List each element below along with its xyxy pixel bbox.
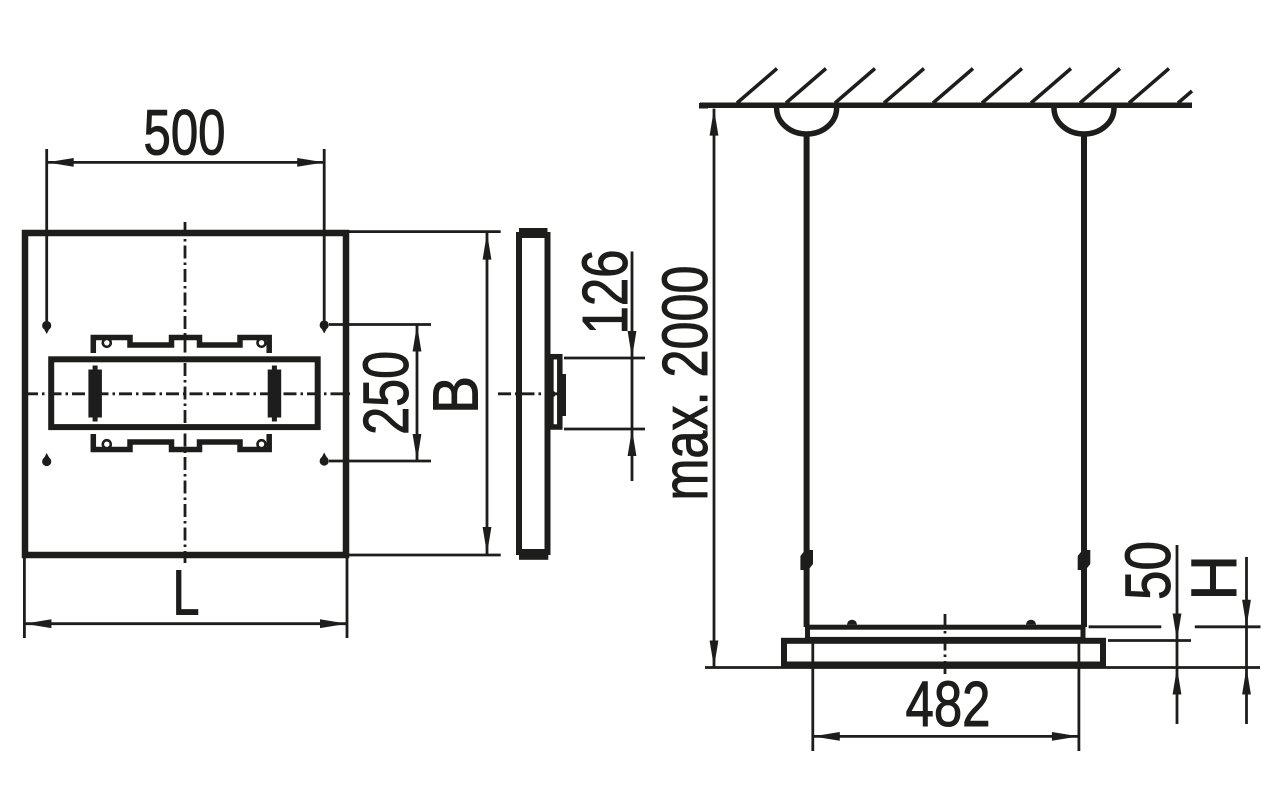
dim 482 arrow left (813, 732, 840, 741)
gear box (51, 359, 318, 427)
svg-text:max. 2000: max. 2000 (649, 266, 721, 501)
dim H arrow top (1242, 600, 1251, 627)
ceiling line end nub (699, 103, 708, 109)
dim 500 arrow right (297, 158, 324, 167)
horizontal centerline (25, 392, 350, 395)
cable right (1081, 133, 1087, 627)
dim 500 extension line right (323, 149, 326, 321)
frame (784, 641, 1103, 665)
suspension marker top-right (320, 320, 329, 333)
side top cap (519, 228, 548, 234)
screw hole bottom-right (258, 440, 266, 448)
svg-text:50: 50 (1112, 541, 1184, 600)
side centerline (498, 392, 568, 395)
dim max2000 arrow top (710, 109, 719, 136)
dim 482 dimension line (813, 735, 1079, 738)
cable gripper right (1078, 550, 1091, 570)
dim 250 dimension line (416, 325, 419, 462)
dim 50 extension line (strip top, left segment) (1089, 625, 1162, 628)
front centerline (944, 614, 947, 678)
dim 250 arrow bottom (413, 434, 422, 461)
lamp bar right (268, 366, 282, 422)
dim L dimension line (24, 622, 347, 625)
dim 126 extension line top (564, 357, 645, 360)
suspension marker bottom-right (320, 453, 329, 466)
dim 50 arrow bottom (1173, 668, 1182, 695)
dim 126 arrow top (628, 331, 637, 358)
side bracket tab (560, 374, 567, 416)
dim 126 arrow bottom (628, 429, 637, 456)
side bottom cap (519, 554, 548, 560)
screw hole top-left (103, 339, 111, 347)
strip bump left (847, 620, 857, 625)
dim H arrow bottom (1242, 668, 1251, 695)
dim 250 extension line top (329, 323, 431, 326)
svg-text:500: 500 (144, 96, 226, 168)
dim max2000 dimension line (713, 109, 716, 668)
ceiling line (700, 103, 1192, 109)
dim B extension line bottom (349, 554, 501, 557)
dim 482 extension line right (1078, 642, 1081, 751)
cable gripper left (800, 550, 813, 570)
dim H extension line (strip top, right segment) (1195, 625, 1261, 628)
dim max2000 arrow bottom (710, 641, 719, 668)
svg-text:250: 250 (350, 351, 422, 435)
ceiling hatching (737, 69, 1192, 104)
dim 500 extension line left (45, 149, 48, 321)
dim 50 arrow top (1173, 614, 1182, 641)
dim 482 arrow right (1052, 732, 1079, 741)
ceiling mount dome left (777, 108, 837, 134)
side body (519, 235, 548, 552)
lamp bar left (88, 366, 102, 422)
svg-text:126: 126 (569, 250, 641, 335)
dim 126 extension line bottom (564, 428, 645, 431)
dim L extension line left (23, 558, 26, 638)
suspension marker bottom-left (42, 453, 51, 466)
dim 500 arrow left (47, 158, 74, 167)
dim B arrow top (483, 233, 492, 260)
dim B dimension line (486, 232, 489, 555)
svg-text:H: H (1178, 555, 1250, 601)
dim B arrow bottom (483, 527, 492, 554)
cable left (804, 133, 810, 627)
bottom extension line (panel underside) (705, 666, 1260, 669)
svg-text:482: 482 (906, 668, 991, 740)
top castellated strip (93, 338, 269, 354)
dim 126 dimension line (631, 252, 634, 482)
dim B extension line top (348, 230, 501, 233)
strip bump right (1026, 620, 1036, 625)
panel square (25, 233, 346, 555)
svg-text:L: L (173, 556, 200, 628)
ceiling mount dome right (1054, 108, 1114, 134)
dim H dimension line (1245, 557, 1248, 724)
dim L arrow right (320, 619, 347, 628)
dim 500 dimension line (47, 161, 325, 164)
dim 482 extension line left (811, 642, 814, 751)
side centre dot (550, 391, 556, 397)
screw hole top-right (258, 339, 266, 347)
vertical centerline (184, 222, 187, 563)
dim 50 extension line (frame top) (1108, 639, 1191, 642)
dim L extension line right (346, 558, 349, 638)
svg-text:B: B (419, 376, 491, 414)
dim 50 dimension line (1176, 545, 1179, 724)
top strip (808, 627, 1084, 639)
dim 250 extension line bottom (329, 460, 431, 463)
bottom castellated strip (93, 434, 269, 450)
side bracket (551, 357, 560, 427)
screw hole bottom-left (103, 440, 111, 448)
suspension marker top-left (42, 321, 51, 334)
dim L arrow left (24, 619, 51, 628)
dim 250 arrow top (413, 325, 422, 352)
